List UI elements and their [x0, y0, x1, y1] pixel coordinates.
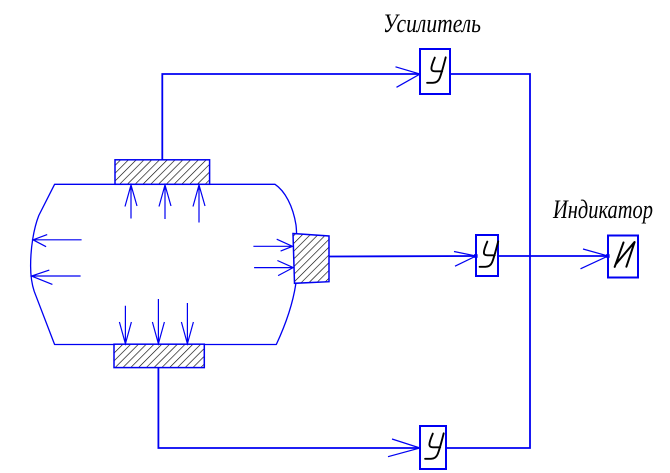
- letter U (У) in U3: [425, 433, 444, 458]
- svg-text:Усилитель: Усилитель: [383, 9, 481, 38]
- pressure arrows right (2, pointing right): [253, 239, 293, 275]
- arrowhead into amplifier U1: [396, 67, 421, 88]
- amplifier box U2: [476, 235, 498, 276]
- amplifier box U1: [420, 49, 450, 94]
- arrowhead into amplifier U2: [454, 252, 476, 267]
- bus wire joining U1 and U3 outputs: [446, 74, 530, 448]
- amplifier box U3: [420, 426, 446, 469]
- junction dot at indicator arrow tip: [606, 254, 610, 258]
- arrowhead into amplifier U3: [388, 439, 420, 457]
- wire from bottom gauge to amplifier U3: [158, 368, 420, 448]
- indicator box I: [608, 236, 638, 278]
- svg-text:Индикатор: Индикатор: [552, 195, 653, 224]
- wire from right gauge to amplifier U2: [329, 255, 476, 258]
- letter I (И) in indicator: [615, 242, 635, 267]
- letter U (У) in U2: [480, 241, 499, 266]
- pressure arrows top (3, pointing up): [125, 185, 205, 223]
- arrowhead into indicator: [581, 249, 609, 269]
- body of elastic sensing element (barrel outline): [31, 184, 297, 344]
- strain gauge top (hatched): [115, 160, 210, 185]
- pressure arrows left (2, pointing left): [32, 235, 82, 285]
- strain gauge right (hatched): [293, 234, 329, 284]
- letter U (У) in U1: [427, 57, 446, 82]
- strain gauge bottom (hatched): [114, 344, 204, 367]
- junction dot at U2 arrow tip: [474, 254, 478, 258]
- wire from amplifier U2 to indicator: [498, 255, 608, 257]
- wire from top gauge to amplifier U1: [162, 74, 420, 160]
- pressure arrows bottom (3, pointing down): [119, 299, 193, 344]
